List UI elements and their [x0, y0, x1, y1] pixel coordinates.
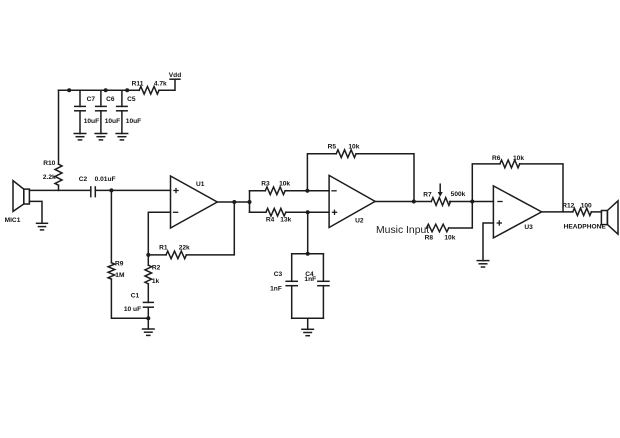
- svg-text:HEADPHONE: HEADPHONE: [564, 224, 607, 231]
- wire U1 inverting input to feedback node: [148, 212, 170, 255]
- svg-text:R12: R12: [562, 203, 574, 210]
- wire U3 non-inverting input to ground: [483, 223, 493, 261]
- ground (C5): [115, 134, 128, 140]
- capacitor C2 0.01uF: [79, 176, 116, 197]
- wire U2 output to R7: [375, 201, 431, 203]
- svg-text:U1: U1: [196, 181, 205, 188]
- wire mic bottom terminal to ground: [29, 201, 42, 223]
- svg-text:R4: R4: [266, 217, 275, 224]
- svg-text:10k: 10k: [348, 144, 359, 151]
- resistor R3 10k: [250, 181, 330, 195]
- capacitor C5 10uF: [116, 90, 141, 133]
- ground (U3): [477, 261, 490, 267]
- svg-text:R7: R7: [423, 192, 432, 199]
- svg-text:10k: 10k: [444, 235, 455, 242]
- svg-text:13k: 13k: [280, 217, 291, 224]
- wire U1 output: [217, 201, 249, 203]
- svg-text:R9: R9: [115, 261, 124, 268]
- capacitor C4 1nF: [304, 254, 329, 318]
- svg-text:22k: 22k: [179, 245, 190, 252]
- svg-text:Music Input: Music Input: [376, 225, 429, 236]
- wire U3 output: [542, 211, 573, 213]
- wire junction down to R9: [110, 190, 112, 262]
- wire split stub: [249, 191, 251, 212]
- ground (mic): [36, 223, 48, 230]
- svg-text:R1: R1: [159, 245, 168, 252]
- svg-text:10 uF: 10 uF: [124, 306, 141, 313]
- resistor R1 22k: [148, 245, 190, 259]
- potentiometer R7 500k: [423, 184, 465, 205]
- svg-text:U2: U2: [355, 218, 364, 225]
- svg-text:10uF: 10uF: [105, 118, 120, 125]
- resistor R5 10k feedback: [307, 144, 414, 202]
- power Vdd: [169, 72, 181, 79]
- junction on rail: [125, 88, 129, 92]
- ground (C6): [94, 134, 107, 140]
- speaker HEADPHONE: [564, 201, 618, 234]
- resistor R11 4.7k: [132, 81, 167, 95]
- capacitor C3 1nF: [270, 254, 298, 318]
- wire stub to ground: [307, 318, 309, 329]
- wire R8 to junction: [449, 202, 473, 229]
- junction after C2: [109, 188, 113, 192]
- svg-text:C3: C3: [274, 271, 283, 278]
- svg-text:R3: R3: [261, 181, 270, 188]
- wire R9 bottom to C1 ground node: [111, 279, 148, 318]
- resistor R4 13k: [250, 208, 330, 223]
- svg-text:R8: R8: [425, 235, 434, 242]
- svg-text:C7: C7: [87, 96, 96, 103]
- svg-text:100: 100: [581, 203, 592, 210]
- microphone MIC1: [5, 181, 30, 225]
- resistor R10 2.2k: [43, 160, 62, 191]
- wire C3C4 top rail: [292, 253, 324, 255]
- op-amp U3: [493, 186, 541, 238]
- svg-text:C2: C2: [79, 176, 88, 183]
- svg-text:10k: 10k: [279, 181, 290, 188]
- svg-text:10uF: 10uF: [126, 118, 141, 125]
- wire supply rail: [59, 89, 140, 91]
- junction C1/R9 node: [146, 316, 150, 320]
- svg-text:10k: 10k: [513, 155, 524, 162]
- op-amp U2: [329, 175, 375, 227]
- junction R3 / R5 node: [305, 189, 309, 193]
- wire R7 to U3 inverting input: [450, 201, 494, 203]
- junction on rail: [104, 88, 108, 92]
- ground (C1): [142, 329, 155, 335]
- junction C3C4 top node: [306, 252, 310, 256]
- ground (C3C4): [301, 329, 314, 335]
- resistor R8 10k: [425, 224, 456, 241]
- wire C3C4 bottom rail: [292, 317, 324, 319]
- svg-text:Vdd: Vdd: [169, 72, 181, 79]
- svg-text:C5: C5: [127, 96, 136, 103]
- junction R7/R8/R6 node: [470, 200, 474, 204]
- junction R4 / C3C4 node: [306, 210, 310, 214]
- junction R1/R2 node: [146, 253, 150, 257]
- svg-text:MIC1: MIC1: [5, 217, 21, 224]
- wire R12 to headphone: [591, 211, 601, 213]
- op-amp U1: [171, 176, 218, 228]
- capacitor C6 10uF: [95, 90, 120, 133]
- svg-text:4.7k: 4.7k: [154, 81, 167, 88]
- wire mic top terminal to C2: [29, 189, 90, 191]
- svg-text:R2: R2: [152, 265, 161, 272]
- wire R4 node down to C3C4 rail: [307, 212, 309, 254]
- resistor R12 100: [562, 203, 592, 216]
- svg-text:R6: R6: [492, 155, 501, 162]
- capacitor C1 10uF: [124, 292, 154, 329]
- svg-text:0.01uF: 0.01uF: [95, 176, 116, 183]
- svg-text:2.2k: 2.2k: [43, 174, 56, 181]
- svg-text:U3: U3: [524, 224, 533, 231]
- resistor R2 1k: [145, 255, 161, 303]
- svg-text:1nF: 1nF: [270, 286, 282, 293]
- capacitor C7 10uF: [74, 90, 99, 133]
- junction U1 output feedback tap: [232, 200, 236, 204]
- svg-text:1M: 1M: [115, 272, 125, 279]
- svg-text:500k: 500k: [451, 191, 466, 198]
- svg-text:1nF: 1nF: [304, 276, 316, 283]
- wire R1 to U1 output: [186, 202, 234, 255]
- wire C2 to U1 non-inverting input: [95, 189, 170, 191]
- svg-text:C6: C6: [106, 96, 115, 103]
- junction on rail: [67, 88, 71, 92]
- svg-text:R10: R10: [43, 160, 55, 167]
- svg-text:10uF: 10uF: [84, 118, 99, 125]
- svg-text:R11: R11: [132, 81, 144, 88]
- wire R10 top to supply rail: [58, 90, 60, 164]
- ground (C7): [74, 134, 87, 140]
- svg-text:R5: R5: [328, 144, 337, 151]
- resistor R6 10k feedback: [472, 155, 563, 212]
- svg-text:1k: 1k: [152, 278, 160, 285]
- resistor R9 1M: [108, 261, 125, 280]
- svg-text:C1: C1: [131, 292, 140, 299]
- junction R5 / output node: [412, 200, 416, 204]
- wire R11 to Vdd: [159, 79, 175, 90]
- junction R3/R4 split node: [248, 200, 252, 204]
